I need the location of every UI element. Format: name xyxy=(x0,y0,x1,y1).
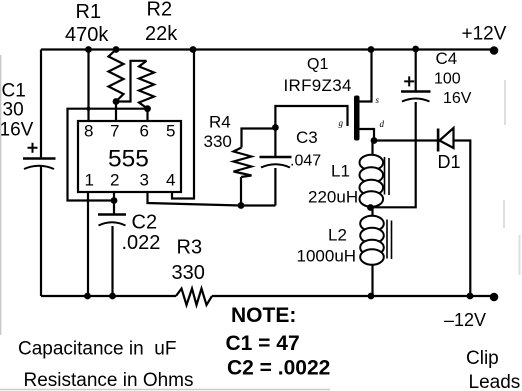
scan artifact edges (decorative) xyxy=(0,55,330,390)
svg-text:R2: R2 xyxy=(147,0,173,21)
junction node pin 7 (R1 bottom) xyxy=(113,98,120,105)
transistor Q1 xyxy=(339,50,385,141)
svg-text:Capacitance in uF: Capacitance in uF xyxy=(18,339,176,360)
svg-text:Leads: Leads xyxy=(469,372,521,391)
svg-text:7: 7 xyxy=(110,122,119,141)
svg-text:R3: R3 xyxy=(177,237,203,259)
label C4 value xyxy=(434,49,472,107)
svg-text:g: g xyxy=(339,118,344,128)
wire pin 6 xyxy=(146,109,148,121)
svg-text:s: s xyxy=(376,95,380,105)
svg-text:16V: 16V xyxy=(0,120,34,141)
wire bottom rail left xyxy=(41,295,176,297)
capacitor C2 xyxy=(98,215,126,226)
svg-text:100: 100 xyxy=(434,71,461,88)
svg-text:16V: 16V xyxy=(443,90,472,107)
junction L2 to rail xyxy=(368,293,375,300)
junction C4 to rail xyxy=(412,46,419,53)
wire gate node to Q1 gate xyxy=(275,106,347,128)
node -12V terminal xyxy=(490,293,499,302)
svg-text:1: 1 xyxy=(85,171,94,190)
capacitor C4 xyxy=(401,50,431,102)
svg-text:3: 3 xyxy=(140,171,149,190)
svg-text:d: d xyxy=(380,119,385,129)
label C1 value xyxy=(0,81,34,141)
IC U1 555 timer xyxy=(78,121,181,192)
junction gate node xyxy=(272,124,279,131)
svg-text:220uH: 220uH xyxy=(308,188,358,207)
svg-text:.022: .022 xyxy=(122,232,161,254)
svg-text:470k: 470k xyxy=(65,24,109,46)
wire pin 4 to rail xyxy=(172,50,194,199)
svg-text:C1 = 47: C1 = 47 xyxy=(226,332,300,355)
label Clip Leads xyxy=(466,348,520,391)
junction L1-L2 node xyxy=(367,204,374,211)
resistor R3 xyxy=(176,289,212,306)
svg-text:C2 = .0022: C2 = .0022 xyxy=(227,357,330,380)
svg-text:IRF9Z34: IRF9Z34 xyxy=(284,76,352,95)
resistor R1 xyxy=(109,50,124,102)
resistor R4 xyxy=(234,148,252,178)
junction R4 bottom xyxy=(238,202,245,209)
svg-text:5: 5 xyxy=(166,122,175,141)
wire drain down through coils xyxy=(371,141,373,297)
svg-text:L1: L1 xyxy=(331,162,350,181)
svg-text:Resistance in Ohms: Resistance in Ohms xyxy=(24,370,194,391)
svg-text:330: 330 xyxy=(204,132,232,151)
wire pin6 to pin2 wrap xyxy=(68,109,148,201)
svg-text:555: 555 xyxy=(108,146,149,173)
svg-text:C3: C3 xyxy=(296,128,318,147)
wire D1 to -12V rail xyxy=(454,141,471,297)
svg-text:8: 8 xyxy=(84,122,93,141)
wire pin 7 xyxy=(115,102,117,122)
svg-text:22k: 22k xyxy=(145,23,178,45)
capacitor C1 xyxy=(23,143,56,169)
junction drain node xyxy=(371,137,378,144)
svg-text:6: 6 xyxy=(140,122,149,141)
svg-text:2: 2 xyxy=(110,171,119,190)
svg-text:1000uH: 1000uH xyxy=(297,247,357,266)
junction pin1 to rail xyxy=(84,293,91,300)
svg-text:C1: C1 xyxy=(2,81,26,102)
junction pin 4 wire to rail xyxy=(190,46,197,53)
note text xyxy=(226,304,331,380)
junction pin 8 to rail xyxy=(85,46,92,53)
wire R2 top staple xyxy=(116,61,147,102)
capacitor C3 xyxy=(260,128,292,206)
inductor L2 xyxy=(360,216,391,265)
svg-text:C2: C2 xyxy=(132,212,158,234)
svg-text:L2: L2 xyxy=(328,226,347,245)
inductor L1 xyxy=(360,155,390,207)
wire bottom rail right xyxy=(212,295,494,297)
svg-text:Clip: Clip xyxy=(466,348,499,369)
svg-text:30: 30 xyxy=(3,100,24,121)
junction Q1 source to rail xyxy=(368,46,375,53)
svg-text:4: 4 xyxy=(166,171,175,190)
wire pin 1 to ground rail xyxy=(87,192,89,296)
junction node pin 6 (R2 bottom) xyxy=(144,105,151,112)
wire pin 8 to rail xyxy=(87,50,89,122)
svg-text:–12V: –12V xyxy=(444,310,486,330)
resistor R2 xyxy=(139,61,154,109)
junction node pin 2 / C2 top xyxy=(111,197,118,204)
wire drain to D1 xyxy=(374,139,437,141)
svg-text:330: 330 xyxy=(172,262,205,284)
svg-text:+12V: +12V xyxy=(462,24,507,45)
svg-text:Q1: Q1 xyxy=(307,56,328,73)
svg-text:D1: D1 xyxy=(438,152,461,172)
svg-text:C4: C4 xyxy=(436,49,458,68)
svg-text:NOTE:: NOTE: xyxy=(231,304,296,327)
wire C2 to ground rail xyxy=(111,226,113,296)
svg-text:.047: .047 xyxy=(290,153,321,170)
junction R1 top to rail xyxy=(113,46,120,53)
wire C1 branch xyxy=(40,50,42,297)
junction dot pin8 wire crossing xyxy=(87,107,91,111)
wire R4 bottom lead xyxy=(240,177,242,206)
junction C2 to rail xyxy=(109,293,116,300)
node +12V terminal xyxy=(490,46,499,55)
wire pin 3 output xyxy=(148,192,276,206)
wire R4 top lead xyxy=(242,129,276,148)
wire C4 bottom to L1-L2 node xyxy=(371,102,416,207)
wire pin 2 to C2 xyxy=(113,192,115,214)
svg-text:R4: R4 xyxy=(209,113,231,132)
caption units xyxy=(18,339,194,391)
diode D1 xyxy=(437,128,454,152)
svg-text:R1: R1 xyxy=(76,1,102,23)
junction D1 wire to rail xyxy=(467,293,474,300)
wire top +12V rail xyxy=(41,48,494,50)
